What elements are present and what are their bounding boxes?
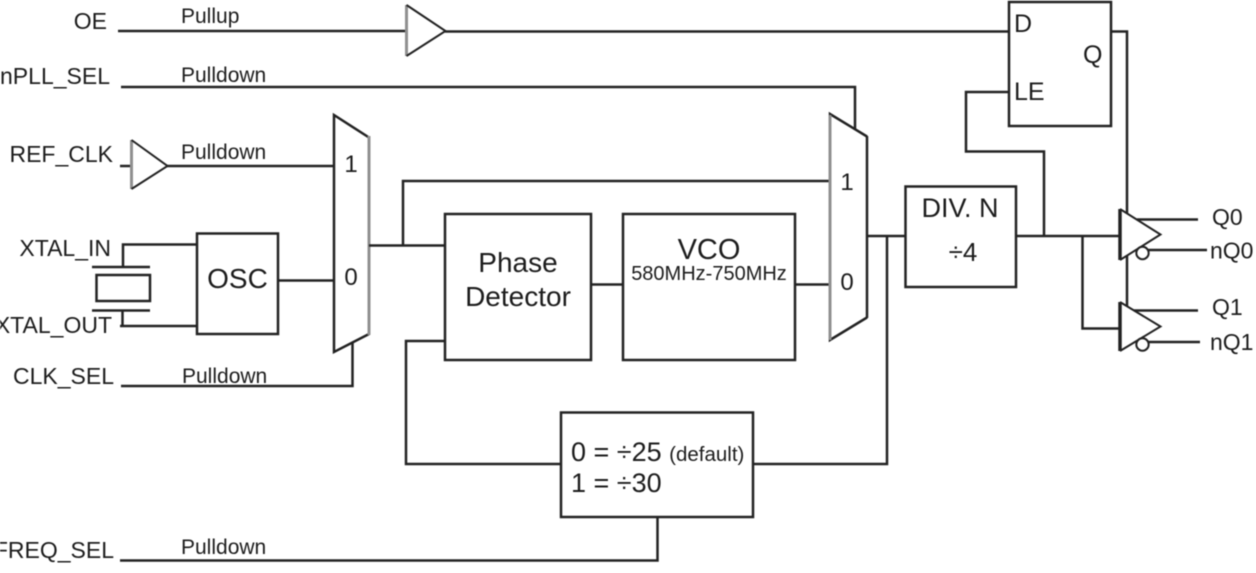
Pulldown label FREQ_SEL: [181, 536, 266, 559]
mux M1 label 1: [344, 151, 357, 178]
buffer U1 OE: [407, 5, 446, 56]
svg-text:Pulldown: Pulldown: [182, 365, 267, 388]
wire nQ1 output: [1149, 341, 1201, 344]
latch pin D: [1014, 10, 1032, 38]
block feedback divider select: [561, 413, 753, 518]
block DIV N: [906, 187, 1017, 288]
node XTAL_IN: [19, 235, 111, 261]
wire feedback divider to mux output net: [753, 236, 887, 464]
OSC label: [207, 263, 268, 294]
node XTAL_OUT: [0, 312, 112, 338]
wire CLK_SEL to mux M1 select: [121, 342, 353, 386]
crystal X1: [92, 267, 150, 326]
latch pin Q: [1083, 41, 1102, 69]
node nQ0: [1210, 238, 1253, 264]
divider option labels: [571, 437, 744, 498]
svg-text:1: 1: [344, 151, 357, 178]
wire OSC to mux M1 input 0: [278, 279, 334, 282]
block OSC: [197, 234, 278, 335]
wire mux M1 output to Phase Detector: [369, 244, 445, 247]
svg-text:XTAL_OUT: XTAL_OUT: [0, 312, 112, 338]
wire mux M2 output to DIV N: [867, 235, 906, 238]
wire nPLL_SEL to mux M2 select: [121, 87, 855, 130]
block latch U3: [1009, 2, 1111, 126]
svg-text:Pulldown: Pulldown: [181, 64, 266, 87]
wire REF_CLK stub: [120, 165, 132, 168]
svg-text:FREQ_SEL: FREQ_SEL: [0, 537, 114, 563]
block Phase Detector: [445, 214, 591, 360]
wire Phase Detector feedback input: [406, 341, 561, 464]
buffer U5 Q1: [1120, 302, 1161, 351]
mux M1 label 0: [344, 264, 357, 291]
wire enable between buffers: [1126, 256, 1129, 307]
bubble nQ1: [1136, 338, 1148, 350]
wire LE to divider output net: [966, 92, 1044, 236]
VCO label: [631, 234, 787, 285]
Pulldown label CLK_SEL: [182, 365, 267, 388]
svg-text:Q: Q: [1083, 41, 1102, 69]
svg-text:Detector: Detector: [465, 281, 571, 312]
svg-text:nQ1: nQ1: [1210, 329, 1253, 355]
svg-text:0: 0: [840, 269, 853, 296]
svg-text:XTAL_IN: XTAL_IN: [19, 235, 111, 261]
Phase Detector label: [465, 247, 571, 312]
node Q0: [1212, 204, 1243, 230]
node Q1: [1212, 294, 1243, 320]
svg-text:Q0: Q0: [1212, 204, 1243, 230]
bubble nQ0: [1136, 247, 1148, 259]
svg-text:DIV. N: DIV. N: [921, 193, 998, 223]
node FREQ_SEL: [0, 537, 114, 563]
svg-text:D: D: [1014, 10, 1032, 38]
wire FREQ_SEL to divider box: [120, 517, 658, 561]
svg-text:1: 1: [840, 169, 853, 196]
node nPLL_SEL: [0, 63, 110, 89]
svg-text:CLK_SEL: CLK_SEL: [13, 363, 114, 389]
mux M1: [334, 115, 369, 352]
latch pin LE: [1014, 78, 1045, 106]
mux M2 label 1: [840, 169, 853, 196]
Pulldown label nPLL_SEL: [181, 64, 266, 87]
buffer U2 REF_CLK: [132, 140, 168, 189]
wire OE buffer to latch D: [445, 30, 1009, 33]
svg-text:580MHz-750MHz: 580MHz-750MHz: [631, 263, 787, 285]
svg-text:VCO: VCO: [678, 234, 741, 266]
svg-text:Q1: Q1: [1212, 294, 1243, 320]
wire Q0 output: [1137, 218, 1198, 221]
svg-text:1 = ÷30: 1 = ÷30: [571, 468, 662, 498]
svg-text:0: 0: [344, 264, 357, 291]
wire nQ0 output: [1149, 249, 1208, 252]
wire VCO to mux M2 input 0: [795, 283, 830, 286]
wire Q1 output: [1134, 309, 1198, 312]
svg-text:Phase: Phase: [478, 247, 557, 278]
node REF_CLK: [9, 141, 113, 167]
wire branch to buffer U5: [1083, 236, 1121, 329]
block VCO: [623, 214, 795, 360]
mux M2 label 0: [840, 269, 853, 296]
Pulldown label REF_CLK: [181, 141, 266, 164]
wire Phase Detector to VCO: [591, 283, 623, 286]
wire REF_CLK to mux M1 input 1: [167, 165, 334, 168]
wire XTAL_OUT to OSC: [120, 325, 197, 328]
wire DIV N output: [1016, 235, 1120, 238]
svg-text:LE: LE: [1014, 78, 1045, 106]
wire latch Q to buffer enables: [1111, 32, 1127, 214]
Pullup label: [181, 5, 239, 28]
wire OE to buffer: [118, 30, 407, 33]
wire XTAL_IN to OSC: [123, 245, 197, 268]
svg-text:Pulldown: Pulldown: [181, 141, 266, 164]
node CLK_SEL: [13, 363, 114, 389]
buffer U4 Q0: [1120, 209, 1161, 260]
svg-text:REF_CLK: REF_CLK: [9, 141, 113, 167]
DIV N label: [921, 193, 998, 267]
svg-text:OSC: OSC: [207, 263, 268, 294]
svg-text:Pulldown: Pulldown: [181, 536, 266, 559]
node OE: [74, 8, 107, 34]
svg-text:Pullup: Pullup: [181, 5, 239, 28]
svg-text:nQ0: nQ0: [1210, 238, 1253, 264]
node nQ1: [1210, 329, 1253, 355]
mux M2: [830, 114, 867, 340]
svg-text:OE: OE: [74, 8, 107, 34]
svg-text:nPLL_SEL: nPLL_SEL: [0, 63, 110, 89]
wire junction to mux M2 input 1: [403, 181, 830, 246]
svg-text:÷4: ÷4: [949, 237, 978, 267]
